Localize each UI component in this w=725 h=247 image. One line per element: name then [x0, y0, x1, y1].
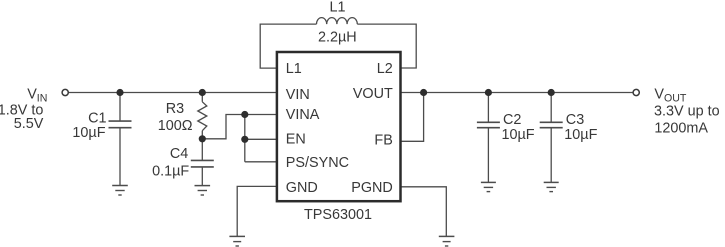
svg-text:TPS63001: TPS63001 — [304, 207, 372, 223]
svg-text:PS/SYNC: PS/SYNC — [286, 155, 349, 171]
svg-text:C2: C2 — [503, 112, 521, 128]
svg-text:VIN: VIN — [286, 87, 310, 103]
svg-text:100Ω: 100Ω — [158, 118, 193, 134]
svg-text:EN: EN — [286, 132, 306, 148]
svg-text:FB: FB — [374, 132, 392, 148]
svg-text:L1: L1 — [286, 61, 302, 77]
svg-text:10µF: 10µF — [72, 125, 105, 141]
svg-text:5.5V: 5.5V — [14, 116, 44, 132]
svg-text:0.1µF: 0.1µF — [152, 164, 189, 180]
svg-text:GND: GND — [286, 180, 318, 196]
svg-text:VINA: VINA — [286, 107, 320, 123]
svg-text:L1: L1 — [329, 0, 345, 15]
svg-text:C3: C3 — [566, 112, 584, 128]
svg-text:10µF: 10µF — [564, 127, 597, 143]
svg-text:R3: R3 — [166, 101, 184, 117]
svg-text:2.2µH: 2.2µH — [318, 30, 357, 46]
svg-text:VOUT: VOUT — [353, 86, 393, 102]
svg-text:L2: L2 — [377, 61, 393, 77]
svg-text:1200mA: 1200mA — [654, 120, 708, 136]
svg-text:10µF: 10µF — [502, 127, 535, 143]
svg-text:3.3V up to: 3.3V up to — [654, 104, 720, 120]
svg-text:PGND: PGND — [351, 180, 393, 196]
svg-text:C4: C4 — [170, 146, 188, 162]
